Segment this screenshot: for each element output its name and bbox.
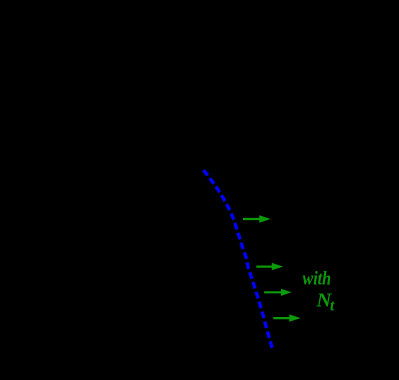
svg-text:with: with (303, 269, 332, 289)
svg-text:t: t (330, 298, 335, 315)
